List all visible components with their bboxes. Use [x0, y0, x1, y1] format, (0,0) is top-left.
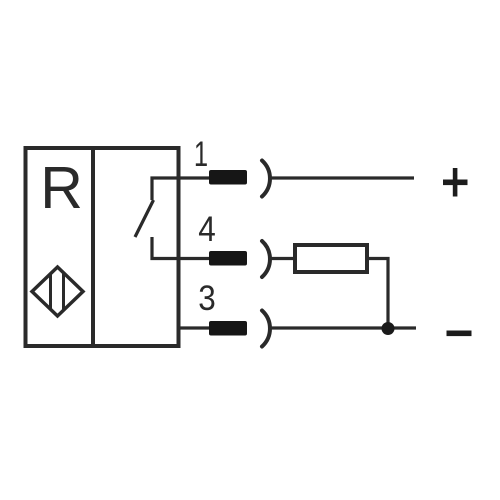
wire resistor to corner [367, 259, 388, 329]
svg-text:4: 4 [198, 211, 216, 250]
wire pin4 to resistor [271, 257, 296, 260]
connector socket arc 3 [262, 311, 270, 347]
pin 4 contact pin [209, 251, 247, 266]
connector socket arc 1 [262, 161, 270, 197]
wire pin1 to plus [271, 176, 415, 179]
minus terminal [447, 331, 472, 337]
switch blade [135, 200, 154, 237]
switch lower contact [152, 237, 209, 259]
wire pin3 to minus [271, 326, 417, 329]
svg-text:R: R [40, 155, 83, 221]
svg-text:1: 1 [194, 135, 208, 174]
pin 3 contact pin [209, 321, 247, 336]
junction node [382, 322, 395, 335]
wire pin3 to box [178, 326, 209, 329]
diamond inner band lines [51, 265, 64, 318]
resistor [295, 245, 367, 272]
magnet-operated switch symbol (diamond) [32, 267, 83, 316]
sensor body outline [26, 148, 179, 346]
plus terminal [443, 168, 468, 197]
connector socket arc 4 [262, 241, 270, 277]
pin 1 contact pin [209, 170, 247, 185]
sensor body partition [91, 148, 95, 346]
svg-text:3: 3 [198, 280, 216, 319]
switch upper contact [152, 178, 209, 200]
